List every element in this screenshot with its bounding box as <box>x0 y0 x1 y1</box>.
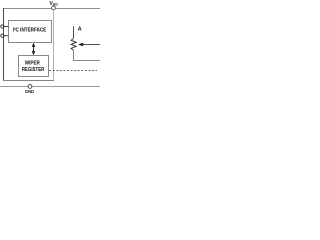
chip outline top edge <box>3 8 52 10</box>
dashed control line <box>49 70 97 72</box>
chip outline bottom edge <box>3 80 54 82</box>
pin SCL wire <box>4 26 9 28</box>
pin SDA wire <box>4 35 9 37</box>
svg-text:A: A <box>78 27 82 33</box>
VDD pin circle <box>52 6 56 10</box>
svg-text:DD: DD <box>53 3 58 7</box>
svg-text:GND: GND <box>25 89 35 95</box>
resistor R zigzag <box>71 38 76 50</box>
svg-text:REGISTER: REGISTER <box>22 67 45 73</box>
svg-text:I²C INTERFACE: I²C INTERFACE <box>13 28 47 34</box>
wiper register block U2 <box>19 56 49 77</box>
resistor terminal B wire <box>74 50 101 60</box>
chip outline right edge <box>53 10 55 81</box>
resistor terminal A wire <box>73 26 75 38</box>
chip outline left edge <box>3 8 5 81</box>
pin SCL circle <box>1 25 4 28</box>
i2c interface block U1 <box>9 21 52 43</box>
GND rail right <box>32 86 100 88</box>
GND rail left <box>0 86 28 88</box>
GND pin circle <box>28 85 32 89</box>
svg-text:WIPER: WIPER <box>25 60 40 66</box>
VDD wire to right edge <box>56 8 100 10</box>
bus arrow between blocks <box>33 46 35 53</box>
wiper arrowhead <box>78 43 83 46</box>
pin SDA circle <box>1 34 4 37</box>
wiper W wire <box>83 44 101 46</box>
